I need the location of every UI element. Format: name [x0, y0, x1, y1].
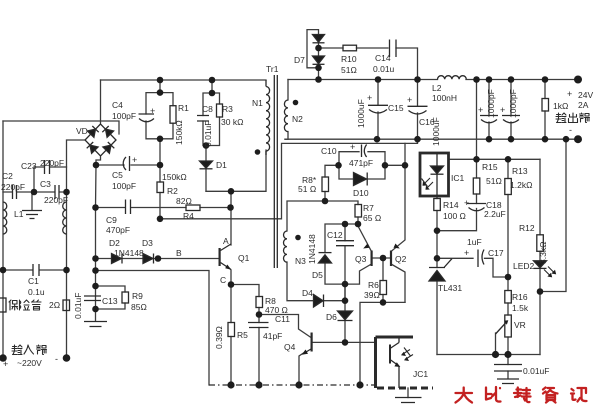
- wire C5 row: [96, 164, 160, 166]
- resistor R3 body: [217, 104, 223, 117]
- svg-text:D6: D6: [326, 312, 337, 322]
- svg-text:C1: C1: [28, 276, 39, 286]
- watermark 大比特资讯 red: [456, 387, 587, 403]
- capacitor C5 plates polarized: [123, 156, 129, 171]
- svg-text:2.2uF: 2.2uF: [484, 209, 506, 219]
- wire R8s branch: [325, 165, 339, 201]
- wire D1 down: [205, 169, 207, 192]
- svg-text:JC1: JC1: [413, 369, 428, 379]
- inductor L2: [438, 76, 467, 80]
- wire C2 C3 row: [3, 191, 67, 193]
- svg-text:R10: R10: [341, 54, 357, 64]
- svg-text:R4: R4: [183, 211, 194, 221]
- resistor R4 body 82ohm: [186, 205, 200, 211]
- winding N1 phase dot: [255, 149, 261, 155]
- wire C12 column: [344, 224, 346, 284]
- svg-text:Q2: Q2: [395, 254, 407, 264]
- svg-text:C15: C15: [388, 103, 404, 113]
- svg-text:+: +: [567, 89, 572, 99]
- wire D5 column: [325, 224, 358, 284]
- diode LED2: [534, 261, 557, 278]
- wire C9-R4 row: [96, 207, 231, 209]
- svg-text:R15: R15: [482, 162, 498, 172]
- svg-text:R1: R1: [178, 103, 189, 113]
- wire x476 down: [476, 80, 478, 160]
- svg-text:41pF: 41pF: [263, 331, 282, 341]
- svg-text:-: -: [569, 125, 572, 135]
- capacitor C9 plates: [126, 200, 131, 215]
- wire C17 row: [437, 258, 508, 277]
- svg-text:IC1: IC1: [451, 173, 465, 183]
- svg-text:1000pF: 1000pF: [508, 89, 518, 118]
- transformer Tr1 core: [274, 75, 277, 268]
- svg-text:2A: 2A: [578, 100, 589, 110]
- capacitor C4 plates polarized: [139, 114, 155, 122]
- svg-text:51Ω: 51Ω: [341, 65, 357, 75]
- svg-text:0.01uF: 0.01uF: [523, 366, 549, 376]
- wire R14 branch: [436, 196, 438, 258]
- svg-text:0.1u: 0.1u: [28, 287, 45, 297]
- wire rail3 secondary ground: [285, 138, 578, 140]
- wire Q1 collector column: [230, 191, 232, 245]
- wire C16 branch: [417, 80, 419, 140]
- wire N2 ends: [285, 80, 288, 140]
- wire Q4 emitter to bus: [299, 353, 304, 385]
- capacitor C1 plates: [33, 264, 39, 276]
- svg-text:R9: R9: [132, 291, 143, 301]
- svg-text:A: A: [223, 236, 229, 246]
- svg-text:24V: 24V: [578, 90, 593, 100]
- svg-text:R6: R6: [368, 280, 379, 290]
- wire ground stub C2C3: [31, 192, 33, 210]
- svg-text:0.01uF: 0.01uF: [203, 121, 213, 147]
- wire D2 D3 B row: [96, 258, 220, 260]
- ground symbol below C13: [84, 322, 107, 327]
- capacitor C23 plates: [45, 160, 50, 174]
- svg-text:+: +: [407, 95, 412, 105]
- svg-text:~220V: ~220V: [17, 358, 42, 368]
- wire y354 row: [437, 354, 540, 356]
- transistor Q4: [302, 333, 312, 355]
- svg-text:R3: R3: [222, 104, 233, 114]
- transistor Q3: [363, 244, 371, 267]
- winding N2 phase dot: [293, 100, 299, 106]
- wire opto out row: [449, 158, 541, 160]
- svg-text:D3: D3: [142, 238, 153, 248]
- label output terminal 输出端: [556, 113, 590, 123]
- svg-text:2Ω: 2Ω: [49, 300, 60, 310]
- svg-text:VD: VD: [76, 126, 88, 136]
- svg-text:100pF: 100pF: [112, 111, 136, 121]
- svg-text:D7: D7: [294, 55, 305, 65]
- capacitor C15 plates polarized: [368, 105, 388, 113]
- wire Q3 Q2 base row R6: [372, 258, 392, 302]
- wire R8s node row: [287, 201, 358, 231]
- svg-text:R7: R7: [363, 203, 374, 213]
- wire D6 column: [344, 284, 346, 342]
- wire outcap2 branch: [510, 80, 512, 140]
- resistor R16 body: [505, 291, 512, 304]
- svg-text:1000uF: 1000uF: [431, 117, 441, 146]
- svg-text:100nH: 100nH: [432, 93, 457, 103]
- capacitor C18 plates polarized: [467, 204, 486, 211]
- svg-text:1.2kΩ: 1.2kΩ: [510, 180, 532, 190]
- resistor R13 body: [505, 179, 512, 195]
- wire R2 to line2 long: [160, 139, 418, 219]
- wire C23 row: [34, 167, 67, 192]
- wire R13 branch: [507, 159, 509, 277]
- svg-text:+: +: [3, 359, 8, 369]
- wire line2 tap x405: [404, 143, 406, 165]
- wire D7 ring: [307, 30, 319, 80]
- svg-text:65 Ω: 65 Ω: [363, 213, 381, 223]
- svg-text:N2: N2: [292, 114, 303, 124]
- svg-text:C12: C12: [327, 230, 343, 240]
- svg-text:L1: L1: [14, 209, 24, 219]
- svg-text:+: +: [500, 105, 505, 115]
- capacitor C10 plates polarized: [362, 145, 367, 158]
- wire outcap1 branch: [488, 80, 490, 140]
- svg-text:+: +: [350, 142, 355, 152]
- transistor Q1: [220, 244, 232, 270]
- svg-text:1kΩ: 1kΩ: [553, 101, 568, 111]
- svg-text:30 kΩ: 30 kΩ: [221, 117, 243, 127]
- svg-text:1.5k: 1.5k: [512, 303, 529, 313]
- wire R16 VR column: [507, 277, 509, 355]
- wire rail1 primary top: [101, 79, 267, 81]
- diode D1: [200, 161, 213, 168]
- resistor R10 body: [343, 45, 357, 51]
- capacitor C17 plates polarized: [478, 250, 484, 268]
- wire C13 R9 loop: [96, 286, 126, 309]
- wire Q2 emitter to x405: [391, 165, 405, 251]
- wire bridge left corner to C23 node: [67, 140, 86, 358]
- svg-text:B: B: [176, 248, 182, 258]
- label input 输入端: [12, 345, 47, 355]
- svg-text:150kΩ: 150kΩ: [162, 172, 187, 182]
- svg-text:N3: N3: [295, 256, 306, 266]
- wire JC1 emitter ground stub: [407, 388, 409, 398]
- svg-text:82Ω: 82Ω: [176, 196, 192, 206]
- svg-text:Q4: Q4: [284, 342, 296, 352]
- svg-text:R16: R16: [512, 292, 528, 302]
- diode D5: [319, 255, 332, 263]
- svg-text:LED2: LED2: [513, 261, 535, 271]
- svg-text:+: +: [132, 155, 137, 165]
- svg-text:R5: R5: [237, 330, 248, 340]
- wire bridge top to rail1: [100, 80, 102, 123]
- svg-text:C: C: [220, 275, 226, 285]
- box C4 R1: [146, 93, 173, 139]
- resistor R1 body: [170, 106, 176, 124]
- svg-text:Tr1: Tr1: [266, 64, 279, 74]
- svg-text:220pF: 220pF: [44, 195, 68, 205]
- svg-text:C10: C10: [321, 146, 337, 156]
- potentiometer VR: [496, 315, 512, 337]
- winding N1: [266, 80, 270, 155]
- inductor L1 common mode choke: [3, 202, 7, 234]
- svg-text:+: +: [150, 106, 155, 116]
- capacitor C2 plates: [13, 185, 17, 199]
- wire N3 bottom to D4: [287, 262, 345, 301]
- svg-text:C2: C2: [2, 171, 13, 181]
- diode D4: [314, 295, 324, 308]
- svg-text:1N4148: 1N4148: [114, 248, 144, 258]
- wire y302 row: [360, 302, 405, 385]
- winding N3 phase dot: [295, 235, 301, 241]
- resistor R14 body: [434, 199, 441, 211]
- svg-text:+: +: [367, 93, 372, 103]
- wire TL431 column: [436, 258, 438, 354]
- diode D7 lower: [313, 56, 325, 64]
- svg-text:1000uF: 1000uF: [356, 99, 366, 128]
- svg-text:+: +: [464, 248, 469, 258]
- wire C node to R8 C11: [231, 285, 311, 338]
- wire rail2 secondary top: [288, 79, 578, 81]
- svg-text:Q1: Q1: [238, 253, 250, 263]
- capacitor out2 1000pF plates: [502, 116, 520, 123]
- wire x95 column: [95, 165, 98, 321]
- wire y270 to bus corner: [96, 271, 210, 386]
- TL431 symbol: [429, 259, 452, 281]
- resistor R12 body: [537, 235, 544, 252]
- svg-text:100 Ω: 100 Ω: [443, 211, 466, 221]
- svg-text:C3: C3: [40, 179, 51, 189]
- diode D6: [338, 311, 353, 320]
- svg-text:R13: R13: [512, 166, 528, 176]
- wire C1 row: [3, 269, 67, 271]
- svg-text:Q3: Q3: [355, 254, 367, 264]
- svg-text:TL431: TL431: [438, 283, 462, 293]
- resistor R5 body: [228, 323, 235, 337]
- winding N3: [284, 231, 288, 262]
- svg-text:C23: C23: [21, 161, 37, 171]
- transistor Q2: [391, 244, 400, 267]
- svg-text:D4: D4: [302, 288, 313, 298]
- wire Q4 collector row: [312, 341, 376, 343]
- wire R10 C14: [319, 48, 418, 80]
- svg-text:471pF: 471pF: [349, 158, 373, 168]
- wire Q3 collector: [345, 264, 372, 284]
- ground below 001uF: [497, 379, 519, 384]
- svg-text:0.01u: 0.01u: [373, 64, 395, 74]
- label fuse 保险管: [9, 300, 41, 310]
- resistor R7 body: [355, 205, 362, 218]
- wire AC top to bridge right corner: [3, 121, 119, 134]
- diode D10: [354, 173, 367, 186]
- svg-text:L2: L2: [432, 83, 442, 93]
- wire R5 column: [230, 285, 232, 386]
- wire Q2 collector: [391, 264, 405, 302]
- svg-text:0.01uF: 0.01uF: [73, 293, 83, 319]
- wire cap001 bottom: [507, 355, 509, 379]
- capacitor C3 plates: [55, 185, 59, 199]
- svg-text:C14: C14: [375, 53, 391, 63]
- wire 1k branch: [544, 80, 546, 140]
- capacitor out1 1000pF plates: [480, 116, 498, 123]
- svg-text:0.39Ω: 0.39Ω: [214, 326, 224, 349]
- bus dash-dot line: [209, 384, 376, 386]
- svg-text:C8: C8: [202, 104, 213, 114]
- resistor R2 body: [157, 182, 164, 193]
- wire R15 C18 branch: [437, 159, 477, 230]
- svg-text:3.3kΩ: 3.3kΩ: [538, 242, 548, 264]
- svg-text:51 Ω: 51 Ω: [298, 184, 316, 194]
- capacitor C12 plates: [336, 241, 354, 246]
- wire VR wiper: [495, 333, 497, 355]
- wire C11 down to bus: [258, 328, 260, 386]
- svg-text:C9: C9: [106, 215, 117, 225]
- ground below JC1: [395, 398, 422, 403]
- svg-text:220pF: 220pF: [1, 182, 25, 192]
- diode D7 upper: [313, 35, 325, 43]
- capacitor C16 plates polarized: [408, 106, 428, 114]
- svg-text:100pF: 100pF: [112, 181, 136, 191]
- wire AC line left column: [2, 121, 4, 358]
- wire LED2 down to y354: [539, 292, 541, 355]
- resistor R15 body: [473, 178, 480, 194]
- optocoupler JC1 box: [376, 337, 434, 388]
- resistor R6 body: [380, 281, 387, 295]
- wire C15 branch: [377, 80, 379, 140]
- svg-text:85Ω: 85Ω: [131, 302, 147, 312]
- resistor 2ohm: [63, 300, 70, 311]
- resistor 1k body: [542, 99, 549, 112]
- svg-text:VR: VR: [514, 320, 526, 330]
- wire x160 column: [159, 80, 161, 219]
- diode D2: [112, 254, 122, 264]
- ground symbol near C3: [22, 211, 42, 219]
- capacitor C13 plates: [84, 296, 101, 301]
- optocoupler IC1 box: [420, 153, 449, 196]
- JC1 phototransistor: [390, 337, 413, 388]
- svg-text:-: -: [55, 354, 58, 364]
- box C8 R3: [203, 80, 220, 161]
- wire Q1 emitter down: [230, 270, 232, 285]
- wire LED2 to rail3: [540, 139, 566, 291]
- wire y191 row: [206, 150, 266, 191]
- svg-text:C4: C4: [112, 100, 123, 110]
- svg-text:1uF: 1uF: [467, 237, 482, 247]
- svg-text:N1: N1: [252, 98, 263, 108]
- svg-text:R2: R2: [167, 186, 178, 196]
- capacitor 001uF plates: [494, 365, 522, 372]
- fuse: [0, 298, 6, 312]
- svg-text:39Ω: 39Ω: [364, 290, 380, 300]
- wire C10 box: [339, 152, 405, 179]
- svg-text:+: +: [464, 198, 469, 208]
- resistor R8 body 470: [256, 297, 263, 308]
- svg-text:C13: C13: [102, 296, 118, 306]
- svg-text:220pF: 220pF: [40, 158, 64, 168]
- svg-text:C17: C17: [488, 248, 504, 258]
- svg-text:C11: C11: [275, 314, 290, 324]
- svg-text:R14: R14: [443, 200, 459, 210]
- wire Q3 emitter diag: [358, 224, 372, 252]
- bridge rectifier VD: [85, 124, 116, 156]
- svg-text:C5: C5: [112, 170, 123, 180]
- svg-text:D10: D10: [353, 188, 369, 198]
- svg-text:+: +: [478, 105, 483, 115]
- resistor R8star body: [322, 177, 329, 192]
- wire bridge bottom to C5 node: [96, 157, 101, 165]
- svg-text:1000pF: 1000pF: [486, 89, 496, 118]
- capacitor C11 plates: [248, 323, 269, 328]
- svg-text:D5: D5: [312, 270, 323, 280]
- capacitor C8 plates: [197, 116, 209, 122]
- winding N2: [284, 100, 288, 132]
- resistor R9 body: [122, 292, 129, 303]
- svg-text:150kΩ: 150kΩ: [174, 120, 184, 145]
- diode D3: [143, 254, 153, 264]
- IC1 photodiode: [422, 153, 444, 196]
- capacitor C14 plates: [390, 40, 397, 58]
- svg-text:R12: R12: [519, 223, 535, 233]
- svg-text:470pF: 470pF: [106, 225, 130, 235]
- svg-text:1N4148: 1N4148: [307, 234, 317, 264]
- svg-text:D1: D1: [216, 160, 227, 170]
- svg-text:51Ω: 51Ω: [486, 176, 502, 186]
- wire R12 LED2 branch: [539, 159, 541, 291]
- svg-text:D2: D2: [109, 238, 120, 248]
